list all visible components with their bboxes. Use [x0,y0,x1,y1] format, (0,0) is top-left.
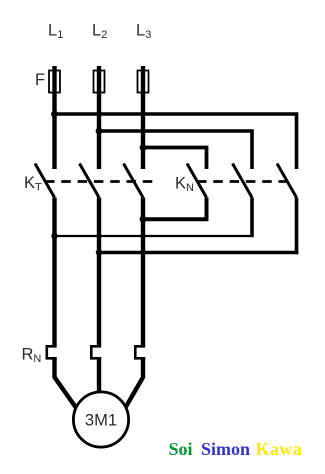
contactor KT pole 2 blade [80,164,100,198]
wire KN1 bottom stub [205,198,209,222]
svg-text:Soi: Soi [169,439,193,459]
junction W tie [140,216,147,223]
contactor KT pole 3 blade [124,164,144,198]
wire KN1 to W column [143,217,209,221]
junction U tie [51,233,57,239]
junction L3 tap [140,144,147,151]
mechanical linkage dashed line KN [197,180,290,183]
wire V to KN3 [99,251,298,255]
svg-text:L1: L1 [48,22,63,42]
contactor KN pole 2 blade [233,164,253,198]
wire motor lead V [97,357,101,394]
junction L1 tap [51,111,58,118]
wire L3 to KN1 top [143,148,207,170]
wire motor lead W [126,357,144,408]
wire U to KN2 [55,235,254,237]
wire motor lead U [55,357,78,410]
fuse F3 [138,71,149,93]
contactor KT pole 1 blade [35,164,55,198]
svg-text:KT: KT [24,174,42,194]
wire KN2 bottom stub [250,198,254,238]
wire KN3 bottom stub [295,198,299,255]
fuse F2 [94,71,105,93]
motor 3M1 [73,392,128,447]
overload RN element 3 [135,346,145,358]
wire L2 to KN2 top [99,131,252,169]
svg-text:F: F [35,71,45,89]
wire W column [141,198,145,347]
fuse F1 [49,71,60,93]
wire V column [97,198,101,347]
junction L2 tap [96,128,103,135]
svg-text:L2: L2 [92,22,107,42]
mechanical linkage dashed line KT [45,180,158,183]
svg-text:3M1: 3M1 [85,411,117,430]
svg-text:KN: KN [175,175,194,195]
svg-text:Kawa: Kawa [256,439,303,459]
contactor KN pole 3 blade [277,164,297,198]
svg-text:L3: L3 [136,22,151,42]
wire L1 phase drop [52,66,56,169]
watermark Soi Simon Kawa [169,439,303,459]
svg-text:RN: RN [22,346,42,366]
wire L2 phase drop [97,66,101,169]
wire L1 to KN3 top [55,114,297,169]
wire L3 phase drop [141,66,145,169]
overload RN element 2 [91,346,101,358]
wire U column [52,198,56,347]
contactor KN pole 1 blade [187,164,207,198]
svg-text:Simon: Simon [201,439,250,459]
overload RN element 1 [47,346,57,358]
junction V tie [96,249,102,255]
